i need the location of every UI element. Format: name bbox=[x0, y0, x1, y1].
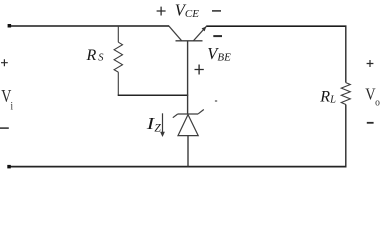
label VCE plus bbox=[157, 7, 166, 16]
wire right rail upper bbox=[345, 26, 347, 82]
node input minus terminal bbox=[7, 165, 11, 169]
svg-text:S: S bbox=[98, 53, 104, 64]
svg-text:R: R bbox=[86, 47, 97, 64]
wire right rail lower bbox=[345, 105, 347, 168]
wire RS-bottom to base node bbox=[118, 94, 189, 96]
wire zener anode to bottom rail bbox=[187, 136, 189, 167]
label Vo plus bbox=[367, 60, 374, 67]
label Vi minus bbox=[0, 127, 9, 129]
stray mark bbox=[215, 100, 217, 102]
label VCE minus bbox=[212, 10, 221, 12]
label IZ current arrow bbox=[162, 113, 164, 133]
label Vo minus bbox=[367, 122, 374, 124]
resistor RS bbox=[114, 26, 122, 95]
transistor Q1 bbox=[169, 26, 206, 41]
node input plus terminal bbox=[8, 24, 12, 28]
label VBE minus bbox=[213, 35, 222, 37]
wire top rail right segment bbox=[206, 25, 346, 27]
wire base lead bbox=[187, 41, 189, 114]
svg-text:Z: Z bbox=[154, 122, 161, 134]
wire bottom rail bbox=[9, 166, 347, 168]
label VBE plus bbox=[195, 65, 204, 75]
label Vi plus bbox=[1, 59, 8, 66]
resistor RL bbox=[341, 83, 350, 105]
wire top rail left segment bbox=[9, 25, 169, 27]
diode DZ zener bbox=[173, 110, 204, 136]
transistor emitter arrowhead bbox=[202, 27, 207, 32]
